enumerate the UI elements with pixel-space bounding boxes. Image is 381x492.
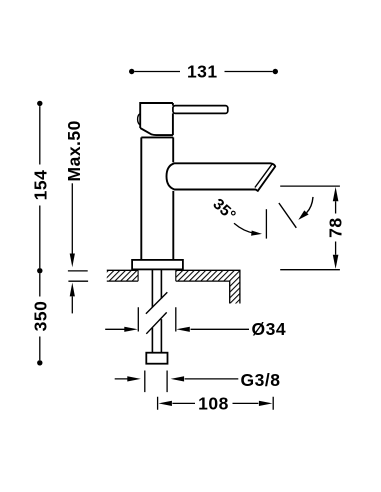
svg-text:78: 78 (326, 217, 346, 237)
svg-text:Ø34: Ø34 (252, 319, 287, 339)
svg-text:Max.50: Max.50 (64, 120, 84, 181)
svg-text:G3/8: G3/8 (241, 370, 281, 390)
svg-text:131: 131 (187, 62, 218, 82)
svg-text:154: 154 (30, 170, 50, 201)
svg-text:350: 350 (30, 301, 50, 332)
svg-text:108: 108 (198, 394, 229, 414)
